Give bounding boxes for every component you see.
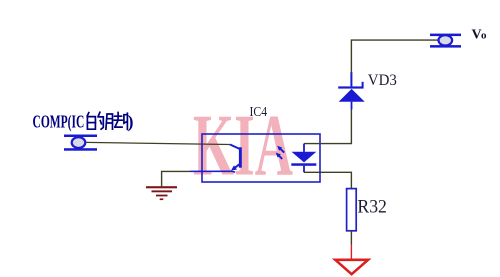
cathode wire LED to R32	[304, 172, 351, 188]
terminal COMP	[64, 135, 97, 151]
emitter wire to ground	[162, 171, 190, 186]
LED of IC4	[291, 144, 316, 173]
label COMP(IC的脚)	[33, 111, 134, 131]
svg-text:COMP(IC: COMP(IC	[33, 111, 85, 131]
power arrow (red)	[335, 260, 368, 274]
resistor R32	[347, 189, 357, 231]
phototransistor of IC4	[190, 145, 242, 173]
ground symbol	[146, 186, 177, 200]
wire COMP to optocoupler	[86, 142, 230, 144]
label VD3	[368, 71, 397, 89]
label R32	[357, 196, 387, 217]
zener diode VD3	[338, 72, 365, 110]
svg-text:R32: R32	[357, 196, 387, 217]
optocoupler IC4 box	[202, 134, 320, 182]
svg-text:o: o	[481, 30, 487, 42]
svg-text:IC4: IC4	[250, 104, 268, 119]
svg-text:VD3: VD3	[368, 71, 397, 89]
label Vo	[472, 28, 488, 43]
anode wire LED to VD3	[304, 109, 351, 144]
wire R32 to arrow	[350, 231, 352, 259]
watermark KIA	[193, 98, 293, 195]
svg-text:): )	[128, 111, 134, 131]
terminal Vo	[430, 34, 461, 48]
wire VD3 to Vo	[351, 40, 439, 73]
light arrows	[276, 146, 285, 159]
label IC4	[250, 104, 268, 119]
